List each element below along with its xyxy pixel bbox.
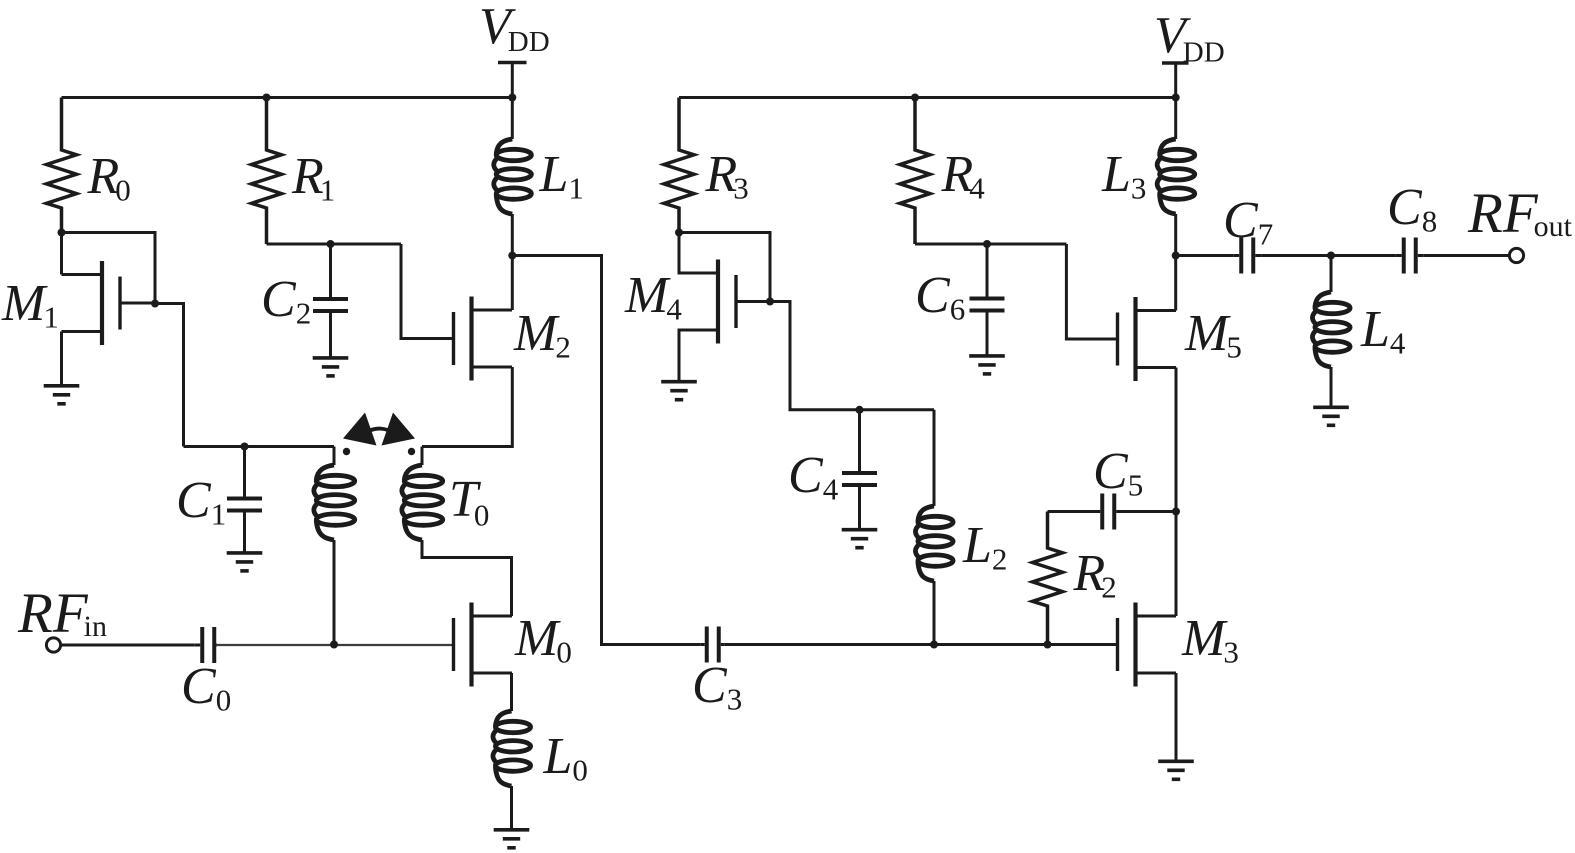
wire C5 node down to M3 drain [1175, 512, 1178, 617]
power VDD terminal 1 (bar and stem) [498, 63, 527, 98]
label M0 [514, 610, 572, 670]
wire M2 source down to transformer [422, 367, 512, 447]
label L0 [543, 728, 588, 788]
svg-text:R0: R0 [87, 148, 131, 208]
label L4 [1360, 301, 1406, 361]
node junction rail/R1 [263, 94, 271, 102]
capacitor C7 [1233, 238, 1261, 274]
ground C1 [227, 553, 263, 571]
label M4 [624, 267, 682, 327]
wire C0 to M0 gate [217, 644, 454, 646]
label L2 [962, 517, 1007, 577]
label VDD 2 [1154, 7, 1225, 69]
label L3 [1101, 146, 1146, 206]
label VDD 1 [479, 0, 550, 58]
label M3 [1181, 610, 1239, 670]
resistor R2 [1033, 512, 1063, 645]
svg-text:M3: M3 [1181, 610, 1239, 670]
label M1 [1, 275, 59, 335]
node L1/M2 drain junction [508, 252, 516, 260]
label C5 [1093, 443, 1143, 503]
inductor L2 [915, 410, 953, 645]
resistor R4 [900, 98, 930, 245]
resistor R1 [252, 98, 282, 245]
node C5/M5-M3 junction [1172, 508, 1180, 516]
svg-text:C7: C7 [1223, 192, 1273, 252]
wire R0 node to M1 gate node [62, 233, 156, 304]
svg-text:C3: C3 [692, 657, 742, 717]
ground M1 source [44, 386, 80, 404]
label C0 [181, 658, 231, 718]
node L3/M5 drain/C7 junction [1172, 252, 1180, 260]
transistor M1 (diode-connected, mirrored) [62, 261, 156, 345]
capacitor C6 [970, 244, 1005, 356]
svg-text:M0: M0 [514, 610, 572, 670]
svg-text:VDD: VDD [479, 0, 550, 58]
wire M3 source to ground [1175, 673, 1178, 761]
transistor M5 [1118, 297, 1177, 381]
ground L0 [494, 830, 530, 848]
node R2/RF line junction [1044, 641, 1052, 649]
wire C8 to RFout [1424, 254, 1510, 257]
ground C2 [313, 358, 349, 376]
svg-text:L1: L1 [539, 146, 584, 206]
svg-text:R3: R3 [705, 146, 749, 206]
label C2 [261, 271, 311, 331]
ground C4 [842, 530, 878, 548]
wire M2 gate wire [401, 244, 454, 339]
transistor M0 [454, 603, 513, 687]
node C4 junction [856, 406, 864, 414]
capacitor C8 [1396, 238, 1424, 274]
svg-text:M2: M2 [513, 305, 571, 365]
label C6 [915, 267, 965, 327]
label L1 [539, 146, 584, 206]
node R3/M4 drain junction [675, 229, 683, 237]
power VDD terminal 2 (bar and stem) [1162, 63, 1189, 98]
capacitor C5 [1048, 494, 1177, 530]
transformer T0 phase dot right [408, 448, 415, 455]
label R0 [87, 148, 131, 208]
svg-text:C4: C4 [788, 447, 839, 507]
wire M5 source down to C5 node [1175, 368, 1178, 512]
svg-text:RFout: RFout [1467, 182, 1573, 245]
transistor M3 [1118, 603, 1177, 687]
node junction rail2/VDD2/L3 [1172, 94, 1180, 102]
transformer T0 coupling arrows [343, 413, 415, 446]
label R2 [1073, 545, 1117, 605]
node RF line / T0 primary junction [330, 641, 338, 649]
svg-text:C8: C8 [1387, 179, 1437, 239]
wire top rail stage 1 [62, 96, 513, 99]
node R4/C6 junction [983, 240, 991, 248]
label C8 [1387, 179, 1437, 239]
ground L4 [1313, 407, 1349, 425]
svg-text:T0: T0 [449, 471, 489, 533]
ground M3 source [1158, 761, 1194, 779]
svg-text:R4: R4 [941, 146, 986, 206]
capacitor C4 [842, 410, 877, 530]
svg-text:C1: C1 [176, 472, 226, 532]
svg-text:VDD: VDD [1154, 7, 1225, 69]
wire M5 drain up to L3 node [1174, 256, 1177, 311]
inductor L0 [493, 711, 531, 830]
ground M4 source [661, 382, 697, 400]
terminal RFout [1509, 248, 1523, 262]
label C7 [1223, 192, 1273, 252]
terminal RFin [46, 638, 60, 652]
node junction rail/VDD/L1 [508, 94, 516, 102]
transistor M4 (diode-connected, mirrored) [678, 260, 771, 344]
capacitor C3 [700, 627, 725, 663]
svg-text:L4: L4 [1360, 301, 1406, 361]
transformer T0 primary winding [314, 447, 355, 645]
wire M4 source to ground [678, 330, 681, 382]
wire C3 to M3 gate [725, 643, 1118, 646]
wire C7 to C8 [1261, 254, 1396, 257]
capacitor C1 [227, 447, 262, 553]
svg-text:L0: L0 [543, 728, 588, 788]
label R1 [291, 148, 335, 208]
inductor L4 [1312, 256, 1350, 408]
capacitor C0 [194, 627, 217, 663]
transistor M2 [454, 297, 513, 381]
wire M5 gate wire [1066, 244, 1117, 339]
label T0 [449, 471, 489, 533]
wire output node to C7 [1176, 254, 1234, 257]
svg-text:M5: M5 [1184, 305, 1242, 365]
wire bias rail to transformer [184, 445, 335, 448]
svg-text:M1: M1 [1, 275, 59, 335]
wire R1 bottom to M2 gate corner [267, 243, 402, 246]
label C1 [176, 472, 226, 532]
node bias rail/C1 junction [241, 443, 249, 451]
resistor R0 [47, 98, 77, 233]
node C8/L4 junction [1327, 252, 1335, 260]
wire interstage from M2 drain to C3 [512, 256, 700, 645]
wire M1 gate node to bias rail [155, 304, 184, 447]
node R0/M1 drain junction [58, 229, 66, 237]
node junction rail2/R4 [911, 94, 919, 102]
node R1/C2 junction [327, 240, 335, 248]
svg-text:M4: M4 [624, 267, 682, 327]
wire M2 drain up to L1 node [511, 256, 514, 311]
wire M4 drain up to R3 node [678, 233, 681, 274]
resistor R3 [664, 98, 694, 233]
label RFout [1467, 182, 1573, 245]
transformer T0 secondary winding [402, 447, 512, 617]
svg-text:R2: R2 [1073, 545, 1117, 605]
transformer T0 phase dot left [343, 448, 350, 455]
wire R4 bottom to M5 gate corner [915, 243, 1066, 246]
svg-text:R1: R1 [291, 148, 335, 208]
ground C6 [969, 356, 1005, 374]
wire M4 gate node to C4/L2 [770, 302, 934, 410]
svg-text:C2: C2 [261, 271, 311, 331]
label R4 [941, 146, 986, 206]
label C3 [692, 657, 742, 717]
svg-text:L2: L2 [962, 517, 1007, 577]
wire top rail stage 2 [679, 96, 1176, 99]
node L2/RF line junction [930, 641, 938, 649]
label C4 [788, 447, 839, 507]
label RFin [17, 582, 107, 645]
svg-text:C6: C6 [915, 267, 965, 327]
node M4 gate junction [766, 298, 774, 306]
wire RFin to C0 [60, 644, 194, 647]
svg-text:C5: C5 [1093, 443, 1143, 503]
svg-text:C0: C0 [181, 658, 231, 718]
svg-text:L3: L3 [1101, 146, 1146, 206]
wire M1 source to ground [60, 332, 63, 386]
capacitor C2 [313, 244, 348, 358]
wire R3 node to M4 gate node [679, 233, 770, 302]
wire M0 source to L0 [510, 673, 513, 711]
wire M1 drain up to R0 node [60, 233, 63, 275]
inductor L3 [1157, 98, 1195, 256]
svg-text:RFin: RFin [17, 582, 107, 645]
label M5 [1184, 305, 1242, 365]
inductor L1 [494, 98, 532, 256]
node M1 gate junction [151, 300, 159, 308]
label M2 [513, 305, 571, 365]
label R3 [705, 146, 749, 206]
